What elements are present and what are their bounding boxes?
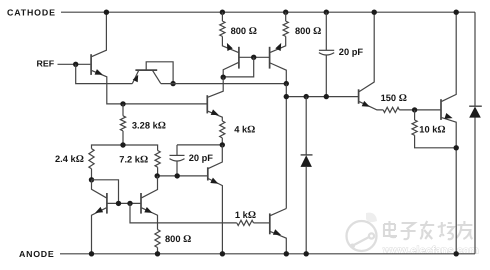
- capacitor C2 20pF: [319, 12, 334, 96]
- resistor R 3.28k: [120, 104, 125, 145]
- diode D1 cathode bar: [301, 154, 313, 156]
- node junction dot cap2 top: [324, 10, 329, 15]
- node junction dot 150-10k: [412, 107, 417, 112]
- node junction dot Q2 collector: [170, 81, 175, 86]
- transistor Q6 emitter lead: [270, 36, 286, 52]
- node anode rail dot 1: [89, 251, 94, 256]
- wire comparator output line: [286, 96, 358, 98]
- svg-text:10 kΩ: 10 kΩ: [419, 124, 445, 135]
- node anode rail dot 3: [220, 251, 225, 256]
- node REF junction dot: [73, 62, 78, 67]
- resistor R 150 ohm: [383, 107, 440, 112]
- wire mirror base rail: [239, 56, 270, 58]
- node anode rail dot 2: [155, 251, 160, 256]
- node junction dot 10k-emitter: [454, 145, 459, 150]
- svg-text:800 Ω: 800 Ω: [295, 26, 321, 37]
- wire right edge vertical upper: [474, 12, 476, 106]
- wire right edge vertical lower: [474, 117, 476, 254]
- node ANODE label: [19, 249, 55, 259]
- node junction dot mirror output: [284, 81, 289, 86]
- resistor R 2.4k: [89, 149, 94, 180]
- svg-text:20 pF: 20 pF: [189, 153, 214, 163]
- transistor Q8 emitter lead: [442, 118, 457, 254]
- transistor Q2 emitter arrow: [133, 75, 139, 83]
- transistor Q12 emitter arrow: [273, 229, 281, 235]
- node junction dot mirror left collector: [221, 75, 226, 80]
- wire cathode top rail: [61, 11, 475, 13]
- transistor Q4 emitter arrow: [211, 109, 219, 115]
- transistor Q10 base bar: [140, 193, 142, 214]
- capacitor C1 20pF: [170, 145, 185, 176]
- transistor Q2 collector lead: [153, 71, 161, 84]
- node anode rail dot 5: [304, 251, 309, 256]
- label 4 kohm: [234, 124, 255, 135]
- transistor Q4 emitter lead: [208, 111, 222, 121]
- wire REF dot down to mirror line: [76, 64, 133, 83]
- svg-text:20 pF: 20 pF: [339, 47, 364, 57]
- transistor Q12 base bar: [269, 213, 271, 234]
- transistor Q11 emitter arrow: [210, 178, 218, 184]
- node junction dot Q8 collector top: [454, 10, 459, 15]
- node junction dot 96-line left: [284, 94, 289, 99]
- node CATHODE label: [7, 8, 56, 18]
- transistor Q1 emitter arrow: [95, 69, 103, 75]
- transistor Q7 base bar: [358, 89, 360, 104]
- svg-text:CATHODE: CATHODE: [7, 8, 56, 18]
- transistor Q9 base bar: [106, 193, 108, 214]
- transistor Q6 base bar: [269, 47, 271, 69]
- svg-text:www.elecfans.com: www.elecfans.com: [382, 246, 479, 257]
- decor watermark elecfans: [347, 213, 479, 257]
- wire mid horizontal net to mirror output: [161, 83, 286, 85]
- transistor Q8 base bar: [440, 99, 442, 120]
- svg-text:3.28 kΩ: 3.28 kΩ: [132, 120, 166, 131]
- svg-text:4 kΩ: 4 kΩ: [234, 124, 255, 135]
- resistor R 1k: [237, 220, 269, 225]
- node junction dot base to 1k: [127, 201, 132, 206]
- transistor Q7 emitter arrow: [362, 101, 370, 107]
- wire anode bottom rail: [60, 253, 475, 255]
- transistor Q5 emitter arrow: [227, 43, 233, 51]
- node anode rail dot 4: [284, 251, 289, 256]
- label 7.2 kohm: [119, 154, 148, 165]
- resistor R 800 ohm right: [283, 12, 288, 36]
- wire mirror output vertical: [285, 84, 287, 209]
- node junction dot base link: [116, 201, 121, 206]
- transistor Q11 base bar: [207, 167, 209, 180]
- svg-text:800 Ω: 800 Ω: [231, 26, 257, 37]
- diode D1 triangle: [301, 155, 312, 167]
- transistor Q2 base bar: [135, 69, 157, 71]
- svg-text:2.4 kΩ: 2.4 kΩ: [55, 154, 84, 165]
- resistor R 10k: [412, 110, 456, 148]
- transistor Q7 emitter lead: [359, 102, 383, 110]
- wire Q8 collector to cathode: [442, 12, 457, 101]
- svg-text:150 Ω: 150 Ω: [381, 93, 407, 104]
- wire Q7 collector to cathode: [359, 12, 374, 91]
- resistor R 7.2k: [155, 151, 160, 176]
- node junction dot 3.28k bottom: [120, 142, 125, 147]
- transistor Q9 emitter lead: [92, 208, 107, 254]
- transistor Q4 base bar: [206, 95, 208, 113]
- diode D2 triangle: [469, 107, 481, 118]
- transistor Q8 emitter arrow: [445, 113, 453, 119]
- svg-text:REF: REF: [37, 59, 55, 69]
- label 20 pF right: [339, 47, 364, 57]
- wire Q1 collector to cathode: [92, 12, 107, 56]
- label 3.28 kohm: [132, 120, 166, 131]
- label 10 kohm: [419, 124, 445, 135]
- wire cap1 top link: [177, 144, 222, 146]
- node junction dot 96-line cap: [324, 94, 329, 99]
- resistor R 800 ohm bottom: [155, 230, 160, 254]
- node anode rail dot 6: [454, 251, 459, 256]
- transistor Q5 emitter lead: [222, 36, 238, 52]
- transistor Q6 collector lead: [270, 63, 286, 84]
- diode D1 lead lower: [305, 166, 307, 253]
- wire Q9 collector: [92, 180, 107, 198]
- resistor R 800 ohm left: [220, 12, 225, 36]
- wire 2.4k bottom to base link: [92, 180, 119, 204]
- transistor Q9 emitter arrow: [95, 207, 103, 213]
- wire mirror base tie to collector: [223, 57, 254, 77]
- wire REF lead: [58, 63, 91, 65]
- node junction dot 96-line diode: [304, 94, 309, 99]
- node junction dot 7.2k bottom: [155, 173, 160, 178]
- transistor Q6 emitter arrow: [275, 43, 281, 51]
- wire Q9-Q10 base rail: [107, 202, 141, 204]
- wire 2.4k-7.2k top link: [92, 145, 158, 151]
- transistor Q12 emitter lead: [270, 232, 286, 254]
- wire Q12 collector: [270, 209, 286, 216]
- wire Q11 collector from 4k node: [208, 145, 222, 169]
- svg-text:800 Ω: 800 Ω: [165, 234, 191, 245]
- svg-text:1 kΩ: 1 kΩ: [235, 210, 256, 221]
- label 800 ohm bottom: [165, 234, 191, 245]
- wire Q10 collector: [142, 176, 158, 198]
- label 2.4 kohm: [55, 154, 84, 165]
- transistor Q5 collector lead: [223, 63, 238, 78]
- wire base net to 1k: [130, 203, 237, 223]
- node junction dot 4k bottom: [220, 142, 225, 147]
- transistor Q10 emitter arrow: [144, 207, 152, 213]
- label 800 ohm left: [231, 26, 257, 37]
- label 20 pF left: [189, 153, 214, 163]
- transistor Q1 base bar: [90, 54, 92, 75]
- node junction dot mirror base: [251, 55, 256, 60]
- node junction dot 800-1 top: [220, 10, 225, 15]
- node junction dot cathode-Q1: [104, 10, 109, 15]
- transistor Q11 emitter lead: [208, 179, 222, 254]
- node REF label: [37, 59, 55, 69]
- node junction dot cap1 bottom: [175, 173, 180, 178]
- transistor Q10 emitter lead: [142, 208, 158, 230]
- diode D2 cathode bar: [469, 105, 482, 107]
- label 1 kohm: [235, 210, 256, 221]
- label 150 ohm: [381, 93, 407, 104]
- label 800 ohm right: [295, 26, 321, 37]
- node junction dot Q7 collector top: [372, 10, 377, 15]
- wire Q4 collector vertical: [208, 77, 223, 97]
- transistor Q2 emitter lead: [132, 71, 138, 84]
- node junction dot 800-2 top: [283, 10, 288, 15]
- svg-text:7.2 kΩ: 7.2 kΩ: [119, 154, 148, 165]
- transistor Q5 base bar: [238, 47, 240, 69]
- wire Q1 emitter down and right to Q4 base: [92, 71, 207, 104]
- svg-text:ANODE: ANODE: [19, 249, 55, 259]
- wire Q11 base line: [157, 175, 207, 177]
- node junction dot 3.28k top: [120, 101, 125, 106]
- wire Q2 base loop to collector: [146, 62, 173, 84]
- node junction dot 2.4k bottom: [89, 177, 94, 182]
- resistor R 4k: [220, 121, 225, 145]
- diode D1 lead upper: [305, 97, 307, 155]
